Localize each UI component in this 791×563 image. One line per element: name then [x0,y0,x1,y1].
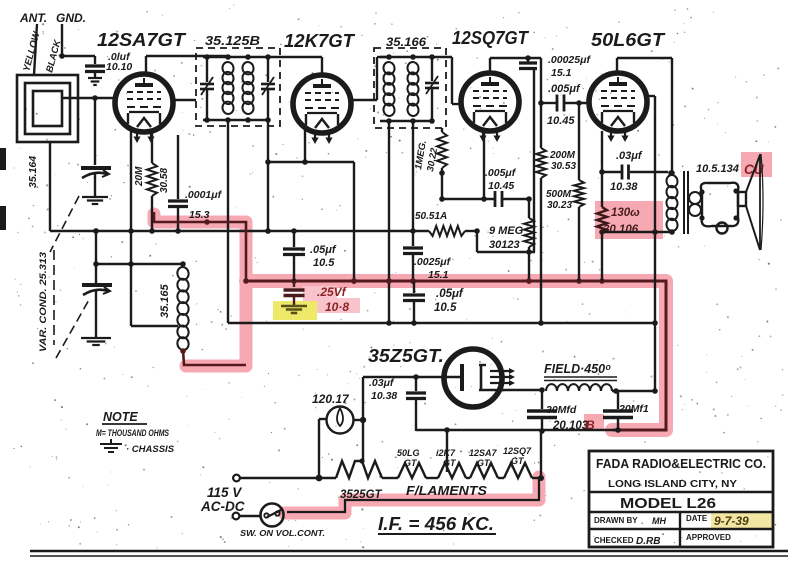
label 35.165 [159,283,171,318]
title divider 1 [589,491,773,493]
svg-text:LONG ISLAND CITY, NY: LONG ISLAND CITY, NY [608,478,737,490]
wire V4 plate top [617,58,672,172]
svg-text:30.106: 30.106 [603,224,639,236]
label 35.164 [27,156,39,188]
wire osc coil top [96,261,186,267]
label FILAMENTS [406,484,488,498]
tube V1 12SA7GT [115,74,173,143]
wire diode line right [502,196,532,202]
speaker cone [746,154,763,250]
label 20Mfd [618,403,649,415]
label 50.51A [415,211,447,222]
filament 50L6 [398,463,426,478]
wire to switch [240,515,261,517]
label .25uf 10.8 (red ink) [317,285,349,314]
svg-text:.0025μf: .0025μf [414,256,452,268]
highlighter mark over 130-ohm resistor R7 (pink) [595,201,663,239]
wire V3 bottom to diode line [481,131,487,202]
capacitor C1 .01uf [85,66,105,77]
svg-text:30Mfd: 30Mfd [546,404,577,416]
label 35Z5GT [368,346,444,366]
wire osc coil tap [131,325,178,327]
label .03uf 10.38 [610,150,643,193]
title block border [589,451,773,547]
svg-text:12SA7: 12SA7 [469,448,498,458]
wire T1 secondary top to V2 grid [268,57,322,73]
wire V5 cathode out [502,387,545,393]
wire loop bottom lead [49,142,51,231]
label .03uf 10.38 rectifier [369,377,397,402]
IF transformer T2 35.166 box [374,48,446,128]
svg-text:15.1: 15.1 [551,67,572,79]
svg-text:DATE: DATE [686,514,708,523]
wire line input top [240,475,322,482]
svg-text:15.1: 15.1 [428,269,449,281]
label .01uf 10.10 [106,51,132,73]
variable capacitor VC2 [82,285,112,337]
label .005uf 10.45 diode [485,167,517,192]
svg-text:FIELD·450ᵒ: FIELD·450ᵒ [544,362,611,376]
svg-text:M= THOUSAND OHMS: M= THOUSAND OHMS [96,428,169,439]
highlighter mark over B-minus bus (pink) [246,281,666,430]
wire grid coupling [541,102,556,104]
T1 primary coil [221,61,234,115]
T1 top bus [203,54,271,60]
label SW. ON VOL.CONT. [240,528,325,538]
wire V2 plate to T2 [351,57,389,100]
wire B+ line [228,320,658,326]
title approved [686,533,731,542]
svg-text:i2K7: i2K7 [436,448,456,458]
svg-text:9-7-39: 9-7-39 [714,514,749,528]
wire osc coil bottom lead (traced) [180,348,246,365]
label 115V AC-DC [200,485,245,514]
capacitor C11 .03uf 10.38 [599,165,674,180]
wire V3 volume vertical [538,58,544,326]
wire filament 3 [466,477,470,479]
label VAR.COND.25.313 [38,251,49,352]
label 3525GT [340,489,383,501]
wire filament 4 [498,477,504,479]
wire lamp to V5 [363,374,460,380]
svg-text:35.164: 35.164 [27,156,39,188]
wire V1 grid cap to T1 [146,56,228,74]
svg-text:MODEL L26: MODEL L26 [620,495,716,512]
svg-text:130ω: 130ω [611,207,640,219]
label ANT [19,11,47,25]
resistor R5 200M 30.53 [536,148,546,178]
svg-text:12SQ7: 12SQ7 [503,446,532,456]
capacitor C9 .05uf 10.5 second [403,281,425,326]
label 500M 30.23 [546,189,572,211]
title divider 2 [589,511,773,513]
output transformer T3 secondary [689,192,701,216]
label BLACK [44,38,64,74]
wire AVC box [474,228,535,255]
capacitor C5 .25uf 10.8 [284,281,305,305]
svg-text:F/LAMENTS: F/LAMENTS [406,484,488,498]
svg-text:AC-DC: AC-DC [200,499,245,514]
resistor R1 20M 30.58 [147,131,157,234]
wire cathode bus [602,229,675,235]
label 12SA7GT [97,29,187,50]
title drawn by [594,516,666,526]
wire antenna lead [34,24,37,75]
filament resistor 35Z5GT [336,458,382,478]
wire filament right [532,431,544,481]
highlighter mark over date (yellow) [711,511,773,528]
wire switch to filament (traced) [287,478,539,512]
wire B+ vertical [654,232,656,391]
svg-text:APPROVED: APPROVED [686,533,731,542]
wire lamp left [319,419,326,477]
svg-text:GT: GT [443,458,457,468]
svg-text:200M: 200M [549,150,576,161]
svg-text:9 MEG: 9 MEG [489,225,524,237]
IF transformer T1 35.125B box [196,48,280,126]
wire to tuning cap VC2 [93,228,99,283]
scan edge mark 1 [0,148,6,170]
label 9MEG 30123 [489,225,524,251]
label 12SQ7 GT [503,446,532,466]
capacitor C8 .005uf diode [495,191,502,207]
T1 bottom bus [203,117,271,123]
label .00025uf 15.1 [548,54,591,79]
svg-text:500M: 500M [546,189,572,200]
svg-text:30.53: 30.53 [551,161,576,172]
svg-text:.05μf: .05μf [310,244,337,256]
wire T1 lead down right [265,120,271,234]
highlighter mark over switch wire (pink) [284,477,539,513]
svg-text:.03μf: .03μf [616,150,643,162]
label .0001uf 15.3 [185,189,223,221]
svg-text:10·8: 10·8 [325,300,349,314]
wire V3 plate top [490,55,541,72]
terminal 115V bottom [233,513,240,520]
title divider 3 [589,528,773,530]
svg-text:35Z5GT.: 35Z5GT. [368,346,444,366]
label 12K7GT [284,31,356,51]
wire filament 2 [426,477,438,479]
label 12K7 GT [436,448,457,468]
wire to C1 [62,56,95,64]
label 35.166 [386,35,426,49]
svg-text:20Mf1: 20Mf1 [618,403,649,415]
svg-text:GND.: GND. [56,11,86,25]
label 1MEG 30.22 [413,139,440,172]
highlighter mark over .25uf label (pink) [303,286,360,313]
title model [620,495,716,512]
tube V5 35Z5GT [444,349,515,407]
svg-text:SW. ON VOL.CONT.: SW. ON VOL.CONT. [240,528,325,538]
chassis symbol note [100,439,122,452]
svg-text:120.17: 120.17 [312,392,350,406]
highlighter mark over speaker code CU (pink) [741,152,772,177]
filament 12SQ7 [504,463,532,478]
highlighter mark over 20.103B label (pink) [584,414,604,431]
label 120.17 [312,392,350,406]
svg-text:.005μf: .005μf [548,83,581,95]
capacitor C7 .00025uf 15.1 [519,58,537,252]
svg-text:50.51A: 50.51A [415,211,447,222]
capacitor C10 .005uf 10.45 [557,95,564,112]
tube V2 12K7GT [293,75,351,144]
label 20M [134,166,145,187]
label CU (red ink) [744,162,765,177]
ground below C1 [88,78,102,85]
trimmer capacitor T1 right [261,57,275,120]
svg-text:FADA RADIO&ELECTRIC CO.: FADA RADIO&ELECTRIC CO. [596,456,766,471]
ground below VC1 [82,197,108,204]
svg-text:10.45: 10.45 [547,115,575,127]
field coil core [544,377,617,381]
svg-text:10.5: 10.5 [434,302,457,314]
svg-text:12SQ7GT: 12SQ7GT [452,28,530,48]
trimmer capacitor T1 left [200,57,214,120]
svg-text:12K7GT: 12K7GT [284,31,356,51]
wire field out [612,388,658,394]
wire diode line [442,198,494,200]
svg-text:10.10: 10.10 [106,61,132,73]
svg-text:3525GT: 3525GT [340,489,383,501]
label 200M 30.53 [549,150,576,172]
wire T1 lead down left [227,120,229,323]
wire AVC traced [154,212,246,281]
svg-text:DRAWN BY: DRAWN BY [594,516,638,525]
svg-text:15.3: 15.3 [189,209,210,221]
svg-text:.00025μf: .00025μf [548,54,591,66]
label .05uf 10.5 second [434,288,464,314]
svg-text:30.23: 30.23 [547,200,572,211]
svg-text:10.38: 10.38 [371,390,397,402]
resistor R2 50.51A [429,226,477,236]
svg-text:10.45: 10.45 [488,180,514,192]
capacitor C12 .03uf 10.38 [406,377,426,431]
svg-text:CHECKED: CHECKED [594,536,634,545]
label 12SA7 GT [469,448,498,468]
label 35.125B [205,33,260,48]
T2 primary coil [382,61,395,117]
wire V1 plate [173,99,196,101]
wire lamp right [354,377,366,461]
label 12SQ7GT [452,28,530,48]
svg-text:10.5: 10.5 [313,257,335,269]
capacitor C6 .0025uf 15.1 [403,121,423,284]
label GND [56,11,86,25]
svg-text:MH: MH [652,516,666,526]
scan edge mark 2 [0,206,6,230]
svg-text:GT: GT [511,456,525,466]
svg-text:30.58: 30.58 [159,168,170,193]
label 30.58 [159,168,170,193]
wire B-minus bus traced [243,278,666,430]
wire T2 primary lead down [386,121,392,326]
wire to tuning cap VC1 [94,98,96,165]
svg-text:.005μf: .005μf [485,167,517,179]
wire bottom bus to filament [446,431,448,472]
resistor R4 9MEG 30123 [524,199,534,284]
svg-text:10.38: 10.38 [610,181,638,193]
switch SW on volume control [261,504,284,527]
capacitor C13 30Mfd 20.103 [527,390,557,434]
label IF=456KC [378,514,496,534]
title company [596,456,766,490]
label NOTE [102,410,147,424]
label 20.103B [552,418,595,432]
label .0025uf 15.1 [414,256,452,281]
label .005uf 10.45 [547,83,581,127]
svg-text:NOTE: NOTE [103,410,138,424]
svg-text:50LG: 50LG [397,448,420,458]
svg-text:12SA7GT: 12SA7GT [97,29,187,50]
wire AVC bus [50,228,429,234]
svg-text:35.125B: 35.125B [205,33,260,48]
ground below VC2 [81,338,111,345]
label =CHASSIS [126,444,175,455]
svg-text:.05μf: .05μf [436,288,464,300]
capacitor C2 .0001uf 15.3 [168,135,188,234]
svg-text:30123: 30123 [489,239,520,251]
resistor R3 1MEG 30.22 [437,128,447,202]
wire coupling to V4 [564,102,589,104]
tube V4 50L6GT [589,73,647,142]
svg-text:ANT.: ANT. [19,11,47,25]
label 30Mfd [546,404,577,416]
sheet bottom border [30,551,788,556]
resistor R6 500M 30.23 [574,100,584,281]
svg-text:.03μf: .03μf [369,377,395,389]
label FIELD-450 [544,362,611,376]
wire filament 1 [382,477,398,479]
title checked [594,536,660,547]
wire V4 screen [647,96,655,232]
svg-text:20M: 20M [134,166,145,187]
wire loop to grid [62,95,116,101]
svg-text:D.RB: D.RB [636,536,660,547]
T2 top bus [380,54,435,60]
filament 12SA7 [470,463,498,478]
pilot lamp 120.17 [327,407,354,434]
output transformer T3 primary [665,170,678,232]
ground below C5 [281,306,307,313]
label 10.5.134 [696,163,739,175]
svg-text:.0001μf: .0001μf [185,189,223,201]
speaker body [699,183,738,234]
wire filter bottom bus [416,427,616,433]
label 130 30.106 (red ink) [603,207,640,236]
svg-text:115 V: 115 V [207,485,242,500]
capacitor C14 20Mfd [603,391,633,433]
tube V3 12SQ7GT [461,73,519,142]
wire filament left [319,477,336,479]
title date [686,514,749,528]
trimmer capacitor T2 [425,57,439,121]
label M=THOUSAND OHMS [96,428,169,439]
label YELLOW [21,30,42,73]
svg-text:35.166: 35.166 [386,35,426,49]
resistor R7 130ohm 30.106 (traced) [597,131,607,281]
svg-text:35.165: 35.165 [159,283,171,318]
oscillator coil L2 35.165 [176,264,190,351]
svg-text:GT: GT [404,458,418,468]
wire T2 to V3 grid [432,57,461,104]
speaker magnet gap [738,192,746,206]
T2 bottom bus [380,118,435,124]
svg-text:GT: GT [477,458,491,468]
label .05uf 10.5 [310,244,337,269]
filament 12K7 [438,463,466,478]
field coil [546,384,612,391]
label 50L6GT [591,30,666,50]
T1 secondary coil [241,61,254,115]
output transformer T3 core [684,171,688,234]
svg-text:I.F. = 456 KC.: I.F. = 456 KC. [378,514,494,534]
svg-text:10.5.134: 10.5.134 [696,163,739,175]
wire V2 cathode [265,130,357,284]
capacitor C4 .05uf 10.5 [283,228,305,281]
wire ground lead [59,24,65,59]
svg-text:VAR. COND. 25.313: VAR. COND. 25.313 [38,251,49,352]
gang dashed line [50,196,90,358]
title vertical divider [679,512,681,547]
svg-text:· CHASSIS: · CHASSIS [126,444,175,455]
svg-text:50L6GT: 50L6GT [591,30,666,50]
terminal 115V top [233,475,240,482]
label 50L6 GT [397,448,420,468]
highlighter mark over AVC trace (pink) [154,214,246,366]
antenna loop L1 35.164 [17,75,78,142]
T2 secondary coil [406,61,419,117]
variable capacitor VC1 [81,168,111,196]
highlighter mark over ground symbol (yellow) [273,301,317,320]
wire V1 cathode vertical [128,129,134,326]
svg-text:.25Vf: .25Vf [317,285,347,299]
